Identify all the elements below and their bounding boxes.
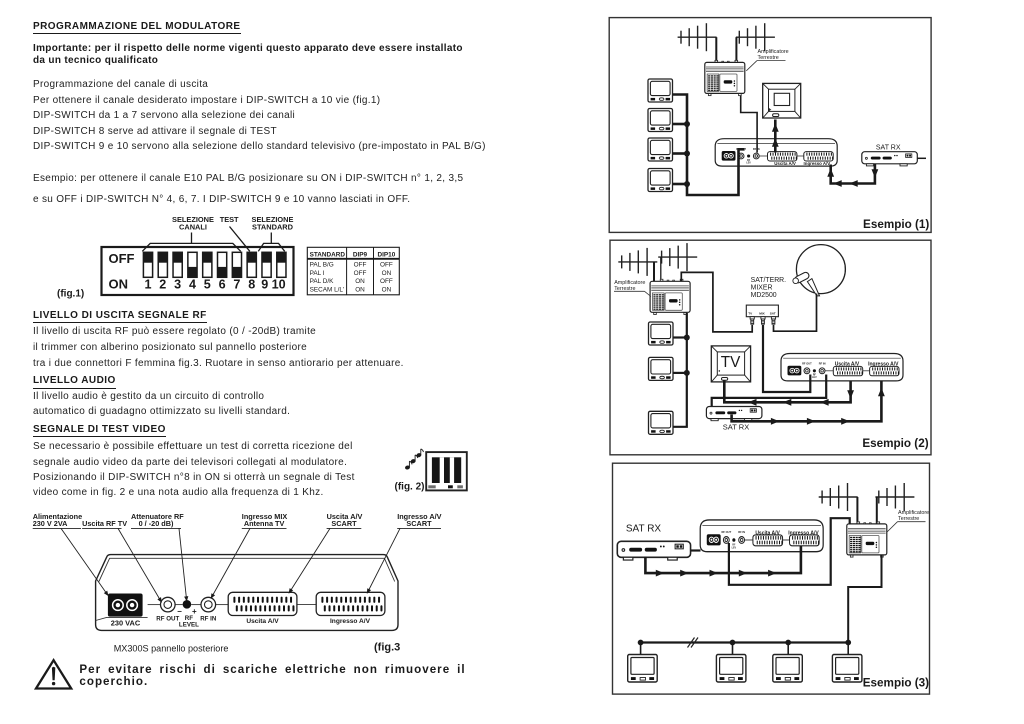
svg-text:(fig. 2): (fig. 2) bbox=[395, 481, 425, 492]
svg-text:Esempio (2): Esempio (2) bbox=[862, 437, 928, 450]
svg-text:MX300S pannello posteriore: MX300S pannello posteriore bbox=[114, 644, 229, 654]
wire: amplifier output to RF IN (esempio 1) bbox=[741, 96, 757, 153]
svg-text:OFF: OFF bbox=[354, 261, 367, 268]
DIP switch 6 bbox=[218, 252, 227, 277]
SAT RX receiver (esempio 3) bbox=[617, 541, 690, 560]
modulator rear panel (esempio 2) bbox=[781, 354, 903, 381]
svg-text:SCART: SCART bbox=[331, 519, 357, 528]
TV 4 (esempio 1) bbox=[648, 169, 673, 192]
amplifier: Amplificatore Terrestre (esempio 1) bbox=[705, 60, 745, 95]
svg-text:1: 1 bbox=[144, 278, 151, 292]
svg-text:0 / -20 dB): 0 / -20 dB) bbox=[139, 519, 174, 528]
satellite dish (esempio 2) bbox=[792, 245, 846, 296]
DIP switch 9 bbox=[262, 252, 271, 277]
figure 1: DIP-switch block bbox=[57, 215, 294, 299]
modulator rear panel (esempio 3) bbox=[700, 520, 823, 552]
warning triangle bbox=[36, 660, 71, 688]
power socket 230 VAC bbox=[108, 594, 143, 617]
TV 4 (esempio 3) bbox=[832, 655, 862, 683]
wire: antenna 2 downlead bbox=[876, 497, 878, 524]
svg-text:TEST: TEST bbox=[220, 215, 239, 224]
svg-text:Antenna TV: Antenna TV bbox=[244, 519, 285, 528]
figure 3: MX300S rear panel bbox=[33, 512, 442, 654]
leader: test (switch 8) bbox=[230, 227, 250, 252]
wire: antenna 1 downlead bbox=[653, 262, 655, 281]
svg-text:MIX: MIX bbox=[759, 312, 765, 316]
TV 2 (esempio 1) bbox=[648, 109, 673, 132]
svg-text:Ingresso A/V: Ingresso A/V bbox=[868, 362, 899, 368]
svg-text:ON: ON bbox=[382, 286, 392, 293]
svg-text:−: − bbox=[177, 607, 182, 616]
amplifier: Amplificatore Terrestre (esempio 3) bbox=[847, 522, 887, 557]
wire: SAT RX to modulator stub bbox=[691, 549, 701, 551]
modulator rear panel (esempio 1) bbox=[715, 139, 837, 166]
svg-text:TV: TV bbox=[721, 354, 741, 371]
svg-text:5: 5 bbox=[204, 278, 211, 292]
svg-text:PAL B/G: PAL B/G bbox=[310, 261, 334, 268]
DIP switch 2 bbox=[158, 252, 167, 277]
antenna 2 (esempio 1) bbox=[736, 23, 775, 51]
svg-text:SAT RX: SAT RX bbox=[626, 524, 662, 535]
RF IN connector bbox=[201, 597, 216, 612]
svg-text:Esempio (3): Esempio (3) bbox=[863, 677, 929, 690]
svg-text:MD2500: MD2500 bbox=[751, 292, 777, 299]
svg-text:230 V 2VA: 230 V 2VA bbox=[33, 519, 68, 528]
esempio 3 frame bbox=[613, 463, 930, 694]
svg-text:OFF: OFF bbox=[380, 278, 393, 285]
svg-text:OFF: OFF bbox=[380, 261, 393, 268]
SCART connector Ingresso A/V bbox=[316, 592, 385, 615]
TV rear view (esempio 1) bbox=[763, 83, 801, 118]
TV 2 (esempio 3) bbox=[716, 655, 746, 683]
antenna 1 (esempio 2) bbox=[618, 248, 657, 276]
svg-text:ON: ON bbox=[355, 278, 365, 285]
SCART connector Uscita A/V bbox=[228, 592, 297, 615]
svg-text:Uscita A/V: Uscita A/V bbox=[774, 161, 796, 166]
panel outline bbox=[96, 555, 398, 631]
wire: TV distribution bus (esempio 3) bbox=[641, 641, 849, 643]
DIP switch 7 bbox=[232, 252, 241, 277]
TV 1 (esempio 3) bbox=[628, 655, 658, 683]
wire: mixer MIX output to RF OUT (esempio 2) bbox=[763, 325, 810, 392]
svg-text:4: 4 bbox=[189, 278, 196, 292]
RF OUT connector bbox=[161, 597, 176, 612]
svg-text:CANALI: CANALI bbox=[179, 223, 207, 232]
TV 1 (esempio 1) bbox=[648, 79, 673, 102]
TV rear view with TV text (esempio 2) bbox=[711, 346, 750, 382]
wire: Uscita A/V to TV (esempio 2) bbox=[724, 381, 850, 403]
svg-text:OFF: OFF bbox=[109, 251, 135, 266]
antenna 1 (esempio 3) bbox=[819, 483, 858, 511]
DIP switch 8 bbox=[247, 252, 256, 277]
svg-text:SAT/TERR.: SAT/TERR. bbox=[751, 277, 787, 284]
svg-text:DIP9: DIP9 bbox=[353, 251, 368, 258]
wire: SAT RX to Ingresso A/V (esempio 1) bbox=[831, 164, 875, 184]
svg-text:MIXER: MIXER bbox=[751, 285, 773, 292]
svg-text:RF IN: RF IN bbox=[200, 616, 217, 623]
svg-text:Uscita RF TV: Uscita RF TV bbox=[82, 519, 127, 528]
SAT RX receiver (esempio 2) bbox=[706, 407, 762, 421]
junction dots on bus bbox=[684, 121, 690, 127]
antenna 2 (esempio 3) bbox=[875, 483, 914, 511]
wire: dish to mixer SAT input bbox=[774, 294, 817, 332]
DIP switch 3 bbox=[173, 252, 182, 277]
TV 1 (esempio 2) bbox=[649, 322, 674, 345]
wire: amplifier output down to bus (esempio 3) bbox=[848, 555, 881, 641]
svg-text:LEVEL: LEVEL bbox=[179, 622, 199, 629]
DIP switch 10 bbox=[277, 252, 286, 277]
svg-text:PAL D/K: PAL D/K bbox=[310, 278, 335, 285]
wire: SAT RX output stub bbox=[917, 157, 926, 159]
wire: SAT RX to Ingresso A/V (esempio 3) bbox=[645, 546, 801, 573]
junction dots on bus (esempio 2) bbox=[684, 335, 690, 341]
wire: antenna 1 downlead bbox=[856, 497, 858, 524]
svg-text:ON: ON bbox=[382, 270, 392, 277]
svg-text:230 VAC: 230 VAC bbox=[111, 619, 141, 628]
TV 3 (esempio 1) bbox=[648, 138, 673, 161]
svg-text:3: 3 bbox=[174, 278, 181, 292]
svg-text:OFF: OFF bbox=[354, 270, 367, 277]
svg-text:Ingresso A/V: Ingresso A/V bbox=[788, 530, 819, 536]
bracket: selezione standard (switches 9-10) bbox=[258, 243, 284, 251]
svg-text:2: 2 bbox=[159, 278, 166, 292]
svg-text:6: 6 bbox=[219, 278, 226, 292]
svg-text:SAT RX: SAT RX bbox=[723, 423, 749, 432]
SAT/TERR mixer MD2500 bbox=[746, 305, 778, 317]
svg-text:10: 10 bbox=[272, 278, 286, 292]
wire: amplifier to TV bus (esempio 2) bbox=[673, 313, 687, 427]
bracket: selezione canali (switches 1-7) bbox=[142, 243, 240, 251]
svg-text:SAT: SAT bbox=[770, 312, 776, 316]
svg-text:DIP10: DIP10 bbox=[378, 251, 396, 258]
svg-text:9: 9 bbox=[261, 278, 268, 292]
svg-text:ON: ON bbox=[355, 286, 365, 293]
svg-text:SCART: SCART bbox=[406, 519, 432, 528]
TV 2 (esempio 2) bbox=[649, 357, 674, 380]
junction dots (esempio 3) bbox=[638, 640, 644, 646]
svg-text:Uscita A/V: Uscita A/V bbox=[755, 530, 780, 536]
svg-text:STANDARD: STANDARD bbox=[252, 223, 294, 232]
amplifier: Amplificatore Terrestre (esempio 2) bbox=[650, 279, 690, 314]
svg-text:Esempio (1): Esempio (1) bbox=[863, 218, 929, 231]
wire: RF OUT to amplifier (esempio 3) bbox=[729, 518, 850, 585]
svg-text:SAT RX: SAT RX bbox=[876, 145, 901, 152]
svg-text:7: 7 bbox=[233, 278, 240, 292]
svg-text:8: 8 bbox=[248, 278, 255, 292]
figure 2: test screen icon bbox=[395, 449, 467, 493]
wire: RF IN to SAT RX (esempio 2) bbox=[712, 375, 827, 412]
antenna 1 (esempio 1) bbox=[678, 23, 717, 51]
wire: SAT RX to Ingresso A/V (esempio 2) bbox=[732, 381, 882, 422]
TV 3 (esempio 3) bbox=[773, 655, 803, 683]
svg-text:(fig.1): (fig.1) bbox=[57, 288, 84, 299]
DIP switch 5 bbox=[203, 252, 212, 277]
svg-text:(fig.3: (fig.3 bbox=[374, 642, 400, 654]
DIP switch 1 bbox=[143, 252, 152, 277]
wire: antenna 2 downlead bbox=[660, 257, 662, 281]
svg-text:STANDARD: STANDARD bbox=[310, 251, 346, 258]
RF LEVEL trimmer bbox=[183, 600, 192, 609]
TV 3 (esempio 2) bbox=[649, 411, 674, 434]
svg-text:SECAM L/L': SECAM L/L' bbox=[310, 286, 345, 293]
wire: Uscita A/V to TV (esempio 1) bbox=[774, 120, 777, 153]
svg-text:Ingresso A/V: Ingresso A/V bbox=[804, 161, 831, 166]
antenna 2 (esempio 2) bbox=[658, 243, 697, 271]
panel seam line bbox=[148, 604, 317, 606]
svg-text:Uscita A/V: Uscita A/V bbox=[246, 618, 279, 625]
table: standard / DIP9 / DIP10 bbox=[307, 247, 399, 294]
svg-text:RF OUT: RF OUT bbox=[156, 616, 179, 623]
SAT RX receiver (esempio 1) bbox=[862, 152, 918, 166]
svg-text:PAL I: PAL I bbox=[310, 270, 325, 277]
musical notes bbox=[405, 449, 423, 470]
esempio 2 frame bbox=[610, 240, 931, 455]
esempio 1 frame bbox=[609, 18, 931, 233]
svg-text:Uscita A/V: Uscita A/V bbox=[835, 362, 860, 368]
break symbol on bus bbox=[688, 638, 699, 648]
wire: antenna 2 downlead bbox=[735, 37, 737, 61]
svg-text:Ingresso A/V: Ingresso A/V bbox=[330, 618, 371, 625]
wire: amplifier to mixer TV input bbox=[681, 272, 752, 332]
DIP switch 4 bbox=[188, 252, 197, 277]
svg-text:ON: ON bbox=[109, 277, 129, 292]
wire: TV distribution bus (esempio 1) bbox=[673, 95, 745, 196]
wire: antenna 1 downlead bbox=[715, 37, 717, 61]
